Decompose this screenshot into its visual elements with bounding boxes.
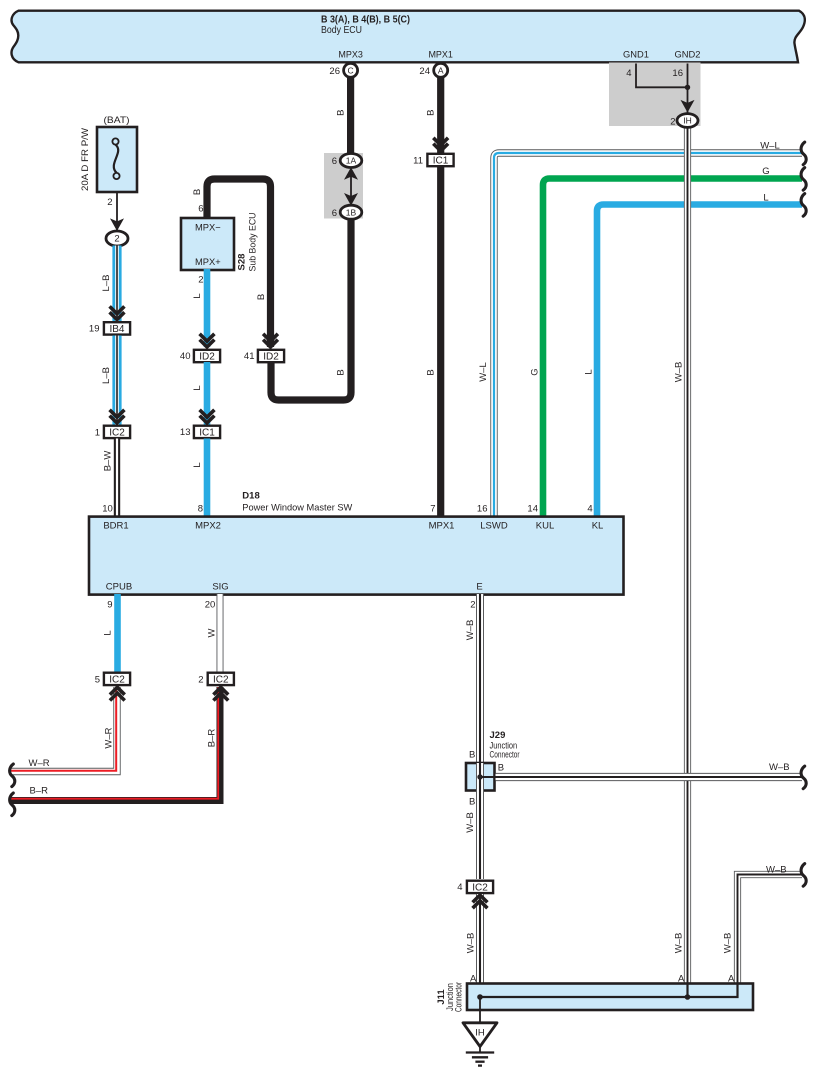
connector box IB4 pin 19 xyxy=(104,322,130,334)
svg-text:A: A xyxy=(438,65,444,75)
connector J29 xyxy=(466,763,495,791)
svg-text:7: 7 xyxy=(430,504,435,515)
Body ECU banner xyxy=(12,11,805,63)
ground triangle IH xyxy=(463,1023,497,1047)
connector oval 1B xyxy=(340,205,362,219)
svg-text:IC1: IC1 xyxy=(199,427,215,438)
torn end W-R xyxy=(10,764,15,787)
svg-text:10: 10 xyxy=(102,504,113,515)
svg-text:B: B xyxy=(426,369,437,375)
wire L-B lower xyxy=(112,336,121,425)
svg-text:20A D FR P/W: 20A D FR P/W xyxy=(80,128,91,191)
pin circle A xyxy=(434,63,448,77)
svg-text:GND2: GND2 xyxy=(675,50,701,61)
wire W-B right branch xyxy=(738,875,803,984)
svg-text:A: A xyxy=(470,973,477,984)
arrow into oval 2 xyxy=(110,218,124,231)
component S28 Sub Body ECU xyxy=(181,218,234,270)
svg-text:13: 13 xyxy=(180,427,191,438)
svg-text:2: 2 xyxy=(470,600,475,611)
wire B MPX3 lower loop xyxy=(271,215,351,400)
svg-text:W–B: W–B xyxy=(722,933,733,954)
svg-text:W–R: W–R xyxy=(104,727,115,748)
svg-text:IC1: IC1 xyxy=(433,156,449,167)
svg-text:5: 5 xyxy=(95,675,100,686)
connector box IC1 pin 13 xyxy=(194,426,220,438)
svg-text:9: 9 xyxy=(107,600,112,611)
svg-text:1A: 1A xyxy=(346,156,357,166)
svg-text:2: 2 xyxy=(198,675,203,686)
svg-text:MPX1: MPX1 xyxy=(428,50,453,61)
wire W-B E xyxy=(476,594,484,764)
junction dot J11 mid xyxy=(685,994,691,1000)
svg-text:W–B: W–B xyxy=(674,362,685,383)
svg-text:B: B xyxy=(498,763,504,774)
svg-text:SIG: SIG xyxy=(212,582,228,593)
wire IH to ground xyxy=(479,1047,481,1053)
connector IH oval xyxy=(677,114,698,128)
svg-text:MPX3: MPX3 xyxy=(338,50,363,61)
svg-text:S28: S28 xyxy=(237,254,248,271)
connector box IC2 pin 2 xyxy=(208,673,234,685)
svg-text:B: B xyxy=(336,369,347,375)
svg-text:41: 41 xyxy=(244,351,255,362)
torn end W-L xyxy=(801,142,806,165)
svg-text:IB4: IB4 xyxy=(109,324,124,335)
svg-text:14: 14 xyxy=(527,504,538,515)
connector box IC2 pin 1 xyxy=(104,426,130,438)
svg-text:2: 2 xyxy=(198,275,203,286)
svg-text:W–L: W–L xyxy=(478,362,489,382)
wire fuse to oval 2 xyxy=(116,192,118,232)
svg-text:2: 2 xyxy=(114,234,119,245)
connector box IC2 pin 5 xyxy=(104,673,130,685)
svg-text:L: L xyxy=(763,192,768,203)
component fuse 20A D FR P/W xyxy=(97,127,137,192)
svg-text:IC2: IC2 xyxy=(472,882,488,893)
svg-text:KL: KL xyxy=(592,520,604,531)
wire G xyxy=(543,179,802,517)
torn end G xyxy=(801,168,806,191)
svg-text:BDR1: BDR1 xyxy=(103,520,128,531)
svg-text:W–B: W–B xyxy=(465,933,476,954)
svg-text:W–B: W–B xyxy=(766,864,787,875)
arrow into IC2-1 xyxy=(110,416,125,423)
component D18 Power Window Master SW xyxy=(89,517,624,595)
svg-text:IH: IH xyxy=(683,116,692,126)
gray harness shield 1A/1B xyxy=(324,153,363,219)
wire L (KL) xyxy=(597,205,802,517)
double arrow 1A-1B xyxy=(350,172,352,201)
svg-text:Connector: Connector xyxy=(490,749,520,760)
svg-text:Power Window Master SW: Power Window Master SW xyxy=(242,503,352,514)
svg-text:B–W: B–W xyxy=(102,451,113,472)
svg-text:LSWD: LSWD xyxy=(480,520,508,531)
svg-text:19: 19 xyxy=(89,324,100,335)
wire GND2 xyxy=(687,64,689,115)
svg-text:4: 4 xyxy=(587,504,592,515)
svg-text:B–R: B–R xyxy=(30,785,49,796)
junction dot J29 xyxy=(477,774,482,779)
svg-text:B: B xyxy=(426,110,437,116)
arrow into ID2-40 xyxy=(200,340,215,347)
svg-text:MPX1: MPX1 xyxy=(429,520,455,531)
wire W-B to J11 xyxy=(476,894,484,984)
arrow into IC2-5 xyxy=(110,687,125,694)
svg-text:8: 8 xyxy=(198,504,203,515)
connector box ID2 pin 41 xyxy=(258,350,284,362)
svg-text:2: 2 xyxy=(107,197,112,208)
svg-text:L–B: L–B xyxy=(101,275,112,292)
svg-text:G: G xyxy=(530,368,541,375)
svg-text:B: B xyxy=(469,750,475,761)
svg-text:16: 16 xyxy=(477,504,488,515)
svg-text:6: 6 xyxy=(198,204,203,215)
svg-text:26: 26 xyxy=(329,66,340,77)
svg-text:B–R: B–R xyxy=(207,729,218,748)
torn end W-B J29 branch xyxy=(801,766,806,789)
svg-text:4: 4 xyxy=(457,882,462,893)
svg-text:L: L xyxy=(192,293,203,298)
svg-text:1B: 1B xyxy=(346,207,357,217)
wire L MPX2 mid xyxy=(204,362,211,425)
svg-text:B: B xyxy=(469,797,475,808)
gray harness shield GND xyxy=(609,63,701,127)
svg-text:W–B: W–B xyxy=(674,933,685,954)
connector box ID2 pin 40 xyxy=(194,350,220,362)
svg-text:24: 24 xyxy=(419,66,430,77)
svg-text:W–R: W–R xyxy=(29,758,50,769)
svg-text:CPUB: CPUB xyxy=(106,582,132,593)
arrow into IB4 xyxy=(110,312,125,319)
wire W-B J29 branch xyxy=(496,773,803,781)
connector box IC1 pin 11 xyxy=(427,154,453,166)
wire W-B main (IH to J11) xyxy=(684,124,691,984)
wire W-B below J29 xyxy=(476,791,484,880)
svg-text:IC2: IC2 xyxy=(109,427,125,438)
svg-text:40: 40 xyxy=(180,351,191,362)
wire L CPUB xyxy=(114,594,121,672)
svg-text:20: 20 xyxy=(205,600,216,611)
wire stub J29 dot xyxy=(480,776,495,778)
svg-text:W–B: W–B xyxy=(769,762,790,773)
wire W SIG xyxy=(217,594,224,672)
svg-text:B: B xyxy=(192,189,203,195)
torn end L xyxy=(801,194,806,217)
svg-text:IC2: IC2 xyxy=(213,674,229,685)
svg-text:B: B xyxy=(336,110,347,116)
svg-text:B 3(A), B 4(B), B 5(C): B 3(A), B 4(B), B 5(C) xyxy=(321,15,410,26)
arrow into IC2-2 xyxy=(213,687,228,694)
torn end W-B right branch xyxy=(801,864,806,887)
svg-text:KUL: KUL xyxy=(536,520,554,531)
arrow into IC2-4 xyxy=(473,895,488,902)
svg-text:B: B xyxy=(256,294,267,300)
svg-text:MPX2: MPX2 xyxy=(195,520,221,531)
svg-text:W–B: W–B xyxy=(465,620,476,641)
svg-text:4: 4 xyxy=(626,68,631,79)
svg-text:L: L xyxy=(103,630,114,635)
svg-text:Sub Body ECU: Sub Body ECU xyxy=(248,212,259,271)
connector oval 1A xyxy=(340,154,362,168)
arrow into IH xyxy=(681,100,695,113)
wire W-B through J29 xyxy=(476,763,484,791)
torn end B-R xyxy=(10,793,15,816)
svg-text:MPX+: MPX+ xyxy=(195,257,221,268)
wire W-L xyxy=(494,153,802,517)
svg-text:MPX−: MPX− xyxy=(195,223,221,234)
svg-text:6: 6 xyxy=(332,208,337,219)
wire B-W xyxy=(114,439,120,517)
junction dot GND1/GND2 xyxy=(685,85,690,90)
svg-text:A: A xyxy=(678,973,685,984)
svg-text:G: G xyxy=(762,166,769,177)
svg-text:L: L xyxy=(192,462,203,467)
wire J11 to IH triangle xyxy=(479,999,481,1023)
svg-text:Body ECU: Body ECU xyxy=(321,25,362,36)
svg-text:L–B: L–B xyxy=(101,367,112,384)
svg-text:W: W xyxy=(207,628,218,637)
wire B-R xyxy=(10,687,220,801)
wire L-B upper xyxy=(112,246,121,322)
ground symbol xyxy=(466,1051,494,1053)
svg-text:A: A xyxy=(728,973,735,984)
svg-text:L: L xyxy=(584,369,595,374)
pin circle C xyxy=(344,63,358,77)
svg-text:C: C xyxy=(348,65,354,75)
wire L MPX2 lower xyxy=(204,439,211,517)
junction dot J11 left xyxy=(477,994,483,1000)
arrow into IC1-11 xyxy=(433,144,448,151)
svg-text:GND1: GND1 xyxy=(623,50,649,61)
svg-text:W–L: W–L xyxy=(760,141,780,152)
arrow into IC1-13 xyxy=(200,416,215,423)
svg-text:2: 2 xyxy=(670,116,675,127)
connector J11 xyxy=(467,984,753,1011)
wire L MPX+ xyxy=(204,269,211,347)
wire W-R xyxy=(10,687,117,772)
svg-text:ID2: ID2 xyxy=(263,352,279,363)
svg-text:E: E xyxy=(476,582,482,593)
svg-text:6: 6 xyxy=(332,156,337,167)
wire J11 internal bus xyxy=(480,984,738,998)
svg-text:Connector: Connector xyxy=(454,982,465,1012)
connector box IC2 pin 4 xyxy=(467,881,493,893)
svg-text:L: L xyxy=(192,385,203,390)
svg-text:D18: D18 xyxy=(242,490,259,501)
svg-text:ID2: ID2 xyxy=(199,352,215,363)
wire B S28 loop xyxy=(207,179,271,347)
wire B MPX3 upper xyxy=(347,63,354,157)
svg-text:W–B: W–B xyxy=(465,812,476,833)
wire GND1 xyxy=(636,64,688,88)
connector oval 2 xyxy=(106,231,128,246)
svg-text:J29: J29 xyxy=(490,730,506,741)
svg-text:1: 1 xyxy=(95,427,100,438)
svg-text:11: 11 xyxy=(413,155,423,166)
svg-text:IC2: IC2 xyxy=(109,674,125,685)
svg-text:16: 16 xyxy=(672,68,683,79)
svg-text:(BAT): (BAT) xyxy=(104,115,130,126)
arrow into ID2-41 xyxy=(263,340,278,347)
wire B MPX1 xyxy=(437,63,444,517)
svg-text:IH: IH xyxy=(475,1028,485,1039)
